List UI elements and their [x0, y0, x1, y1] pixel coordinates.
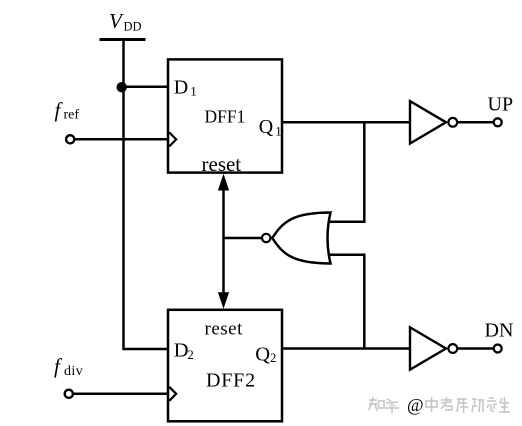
- svg-text:DFF1: DFF1: [205, 107, 246, 127]
- inverter U1 bubble: [448, 118, 457, 127]
- svg-text:ref: ref: [64, 108, 80, 123]
- char nian: [457, 399, 468, 413]
- wire VDD to D1: [124, 86, 170, 89]
- svg-text:Q: Q: [259, 116, 274, 138]
- reset wire vertical with arrows: [218, 174, 229, 309]
- gate U3 body (mirrored NAND, OR shape facing left): [272, 213, 330, 264]
- svg-text:D: D: [174, 77, 188, 99]
- wire U1 to UP terminal: [457, 121, 494, 124]
- char jiu: [487, 398, 497, 411]
- svg-text:@: @: [407, 395, 424, 415]
- junction dot at VDD/D1: [117, 82, 127, 92]
- svg-text:2: 2: [188, 348, 194, 362]
- svg-text:D: D: [174, 340, 189, 362]
- wire Q1 to inverter U1: [282, 121, 410, 124]
- char zhong: [426, 397, 437, 412]
- char sheng: [499, 397, 510, 412]
- svg-text:V: V: [109, 9, 124, 33]
- DFF1 pin Q1 label: [259, 116, 282, 139]
- DFF1 clock chevron: [169, 132, 176, 146]
- DFF2 pin D2 label: [174, 340, 194, 363]
- svg-text:f: f: [54, 354, 63, 378]
- input terminal f_ref: [55, 98, 80, 143]
- output terminal DN: [485, 319, 514, 352]
- svg-text:DFF2: DFF2: [206, 370, 256, 392]
- svg-text:div: div: [64, 364, 83, 379]
- inverter U2 bubble: [448, 344, 457, 353]
- gate U3 output bubble: [262, 234, 270, 242]
- output terminal UP: [488, 94, 514, 127]
- wire Q2 to inverter U2: [282, 347, 410, 350]
- svg-text:UP: UP: [488, 94, 514, 116]
- input terminal f_div: [54, 354, 83, 398]
- char lao: [441, 397, 452, 410]
- power VDD label: [109, 9, 142, 34]
- svg-text:Q: Q: [255, 344, 270, 366]
- svg-text:f: f: [55, 98, 64, 122]
- wire f_ref to DFF1 clock: [75, 138, 169, 141]
- inverter U2 triangle (DN): [410, 327, 446, 369]
- watermark (drawn shapes): [369, 395, 510, 415]
- wire VDD vertical to D2 elbow: [124, 41, 170, 349]
- flip-flop DFF1 box: [168, 59, 282, 172]
- svg-text:1: 1: [190, 83, 197, 98]
- svg-text:DD: DD: [124, 20, 142, 34]
- svg-text:2: 2: [270, 351, 276, 365]
- char hu: [385, 399, 399, 413]
- flip-flop DFF2 box: [168, 310, 282, 422]
- wire f_div to DFF2 clock: [73, 393, 169, 396]
- char yan: [472, 399, 484, 412]
- wire gate output to reset line: [224, 237, 262, 240]
- svg-text:reset: reset: [205, 318, 244, 339]
- DFF1 pin D1 label: [174, 77, 197, 99]
- DFF2 clock chevron: [169, 387, 176, 401]
- wire Q1 branch down to gate input A: [329, 122, 365, 222]
- char zhi: [369, 397, 384, 411]
- svg-text:DN: DN: [485, 319, 514, 341]
- DFF2 pin Q2 label: [255, 344, 276, 366]
- wire U2 to DN terminal: [457, 347, 494, 350]
- inverter U1 triangle (UP): [410, 101, 446, 143]
- power VDD rail bar: [100, 38, 146, 41]
- svg-text:1: 1: [275, 123, 282, 138]
- wire gate input B branch down to Q2: [329, 255, 365, 349]
- svg-text:reset: reset: [202, 152, 242, 176]
